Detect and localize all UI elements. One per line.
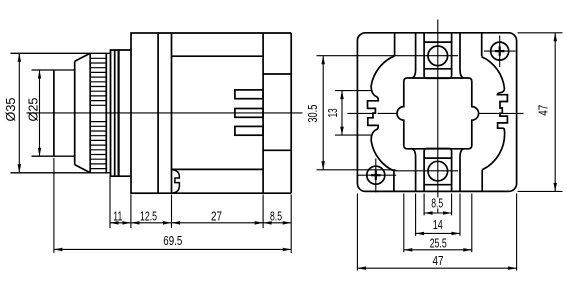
bezel front face (74, 61, 76, 164)
horizontal centerline right a (479, 112, 499, 114)
bottom screw circle (428, 161, 448, 181)
svg-text:47: 47 (536, 105, 551, 116)
svg-text:Ø25: Ø25 (26, 98, 41, 122)
extension line 13 bottom (335, 134, 372, 136)
top screw slot (424, 33, 452, 79)
extension lines 8.5 (423, 194, 425, 216)
dimension 30.5 line (322, 56, 324, 170)
centerline of side view (27, 112, 303, 114)
top channel right wall (460, 33, 464, 78)
horizontal centerline left b (378, 112, 397, 114)
extension line at body rear (262, 195, 264, 229)
extension line 30.5 bottom (317, 169, 396, 171)
body inner bottom line (172, 168, 264, 170)
boss outline right (arc + ear + arc) (482, 57, 508, 170)
svg-text:14: 14 (433, 217, 443, 232)
rear block right face (290, 33, 292, 193)
boss outline left (arc + ear + arc) (368, 56, 395, 171)
bezel bottom edge + Ø35 extension line (11, 172, 111, 174)
svg-text:11: 11 (113, 209, 122, 224)
bottom channel right wall (460, 149, 464, 192)
svg-text:27: 27 (211, 209, 222, 224)
vertical centerline (437, 20, 439, 214)
central cross outline (397, 78, 479, 149)
button cap top edge + Ø25 extension line (32, 69, 75, 71)
bezel top chamfer (75, 53, 91, 61)
shoulder vertical bottom-left (393, 171, 395, 192)
extension line 13 top (335, 90, 371, 92)
extension line at body front (171, 195, 173, 229)
extension lines 25.5 (403, 194, 405, 253)
bottom slot chord line (424, 157, 452, 159)
top channel left wall (412, 33, 416, 78)
button cap front face (53, 70, 55, 156)
top slot chord line (424, 68, 452, 70)
terminal 2 (235, 109, 263, 118)
svg-text:8.5: 8.5 (270, 209, 282, 224)
dimension 47 right line (554, 33, 556, 192)
bottom screw slot (424, 149, 452, 192)
washer bottom edge (110, 175, 131, 177)
svg-text:8.5: 8.5 (431, 196, 443, 211)
bottom channel left wall (412, 149, 416, 192)
dimension text 8.5 bottom (429, 197, 445, 208)
dimension chain line 11/12.5/27/8.5 (110, 222, 291, 224)
top screw circle (428, 46, 448, 66)
washer top edge (110, 49, 131, 51)
rear block divider lower (263, 149, 291, 151)
extension line at terminal end (290, 195, 292, 253)
svg-text:Ø35: Ø35 (3, 98, 18, 122)
extension lines 14 (415, 194, 417, 236)
rear block divider upper (263, 73, 291, 75)
dimension 25.5 line (404, 249, 472, 251)
button cap bottom edge + Ø25 extension line (32, 155, 75, 157)
horizontal centerline right b (501, 112, 523, 114)
svg-text:25.5: 25.5 (430, 236, 447, 251)
bezel top edge + Ø35 extension line (11, 52, 111, 54)
svg-text:13: 13 (325, 108, 340, 117)
washer inner line (117, 50, 119, 176)
mounting flange (131, 33, 158, 193)
terminal 3 (235, 126, 263, 135)
mounting hole bottom-left (367, 166, 385, 184)
dimension 14 line (416, 232, 460, 234)
terminal 1 (235, 90, 263, 99)
dimension Ø25 line (39, 70, 41, 156)
body top edge (158, 32, 263, 34)
lock ring line (110, 50, 112, 176)
bottom screw crosshair (394, 170, 458, 172)
dimension Ø35 line (18, 53, 20, 173)
extension+shoulder line 30.5 top (317, 55, 459, 57)
extension lines 47 bottom (356, 194, 358, 271)
shoulder vertical top-left (394, 33, 396, 56)
shoulder vertical top-right (481, 33, 483, 57)
svg-text:69.5: 69.5 (163, 233, 182, 248)
bezel bottom chamfer (75, 165, 91, 173)
rear block bottom edge (263, 192, 291, 194)
extension line at cap face (53, 158, 55, 253)
body inner top line (172, 55, 264, 57)
extension line at knurl end (109, 177, 111, 229)
latch clip (172, 170, 180, 194)
extension line at flange front (130, 195, 132, 229)
dimension 13 line (341, 91, 343, 136)
knurled ring with hatching (89, 53, 91, 173)
bottom slot inner line (424, 184, 452, 186)
shoulder vertical bottom-right (481, 170, 483, 192)
washer left edge (114, 50, 116, 176)
extension lines 47 right (518, 32, 563, 34)
svg-text:30.5: 30.5 (305, 105, 320, 123)
horizontal centerline left a (347, 112, 374, 114)
dimension 69.5 line (54, 248, 291, 250)
svg-text:47: 47 (433, 253, 444, 268)
body front face (171, 33, 173, 193)
mounting hole top-right (491, 42, 509, 60)
mounting plate outline (357, 33, 516, 192)
body bottom edge (158, 192, 263, 194)
dimension 8.5 line (424, 212, 452, 214)
dimension 47 bottom line (357, 267, 516, 269)
body rear face (262, 33, 264, 193)
svg-text:12.5: 12.5 (140, 209, 157, 224)
rear block top edge (263, 32, 291, 34)
top slot inner line (424, 41, 452, 43)
